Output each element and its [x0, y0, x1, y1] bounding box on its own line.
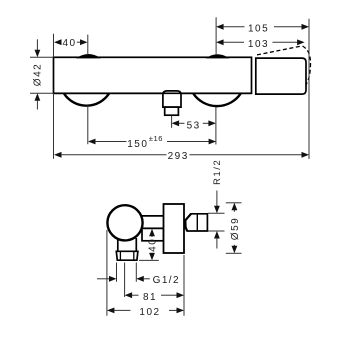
pipe to wall (side view): [139, 215, 164, 217]
svg-text:R1/2: R1/2: [212, 159, 222, 185]
outlet upper part (front view): [163, 91, 181, 107]
extension line right union center above: [215, 17, 217, 55]
knob circle (side view): [107, 205, 142, 240]
svg-text:102: 102: [139, 307, 160, 318]
mixer body (front view): [54, 57, 252, 93]
dimension 53: [172, 120, 216, 131]
lower body step (side view): [142, 228, 164, 241]
extension line knob front: [106, 230, 108, 316]
right escutcheon arc: [193, 94, 240, 107]
R1/2 lower arrow: [214, 231, 220, 239]
dimension 103: [216, 39, 305, 50]
svg-text:293: 293: [168, 151, 189, 162]
outlet shaft (side view): [117, 238, 119, 251]
outlet lower part (front view): [165, 107, 179, 115]
dimension 40 (side view): [139, 229, 159, 261]
svg-text:G1/2: G1/2: [153, 275, 180, 286]
extension lines G1/2: [116, 263, 118, 282]
dimension 150±16: [88, 134, 216, 150]
extension line handle end right: [308, 19, 310, 159]
body bottom edge: [54, 92, 252, 94]
svg-text:53: 53: [187, 120, 201, 131]
svg-text:±16: ±16: [149, 134, 163, 143]
outlet nut G1/2 (side view): [116, 251, 138, 260]
dashed handle swing line: [257, 46, 302, 55]
svg-text:105: 105: [248, 24, 269, 35]
extension line body left above: [53, 34, 55, 57]
svg-text:Ø42: Ø42: [32, 63, 43, 86]
dimension Ø42 (left): [30, 39, 53, 109]
dimension 102: [107, 307, 184, 318]
wall flange Ø59 (side view): [164, 204, 185, 253]
handle (front view): [256, 58, 306, 94]
dimension Ø59: [226, 203, 242, 254]
svg-text:Ø59: Ø59: [230, 217, 241, 240]
dimension 105: [216, 24, 309, 35]
extension line outlet center below: [171, 116, 173, 128]
right union bump on top: [208, 55, 228, 58]
dashed handle end arc: [303, 46, 311, 85]
extension line right union center below: [215, 107, 217, 145]
extension line outlet center: [124, 263, 126, 298]
svg-text:40: 40: [148, 238, 159, 252]
extension line wall face: [183, 255, 185, 316]
R1/2 extension lines: [208, 212, 225, 214]
dimension 81: [125, 292, 184, 303]
dimension 293: [54, 93, 310, 162]
dimension G1/2: [97, 275, 180, 286]
wall connection nut R1/2 (side view): [185, 214, 207, 231]
left escutcheon arc: [64, 94, 109, 106]
svg-text:40: 40: [62, 38, 76, 49]
svg-text:103: 103: [248, 39, 269, 50]
left union bump on top: [78, 55, 99, 58]
label R1/2: [212, 159, 222, 214]
svg-text:150: 150: [127, 139, 148, 150]
extension line left union center below: [87, 106, 89, 145]
svg-text:81: 81: [143, 292, 157, 303]
extension line left union center above: [87, 35, 89, 56]
dimension 40 (top left): [54, 38, 88, 49]
